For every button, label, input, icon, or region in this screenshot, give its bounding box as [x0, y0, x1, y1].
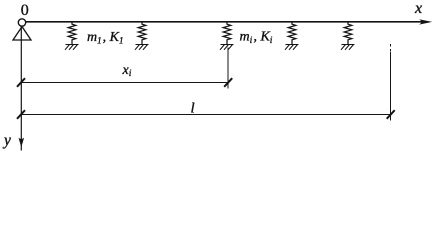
extension line at xi [227, 48, 229, 89]
beam / x-axis line [26, 21, 426, 23]
spring S2 [138, 22, 146, 45]
svg-text:0: 0 [21, 2, 29, 19]
x-axis arrowhead [419, 19, 432, 24]
spring S1 [68, 22, 76, 45]
y-axis arrowhead [19, 138, 25, 148]
extension line at l (dashed top) [390, 44, 392, 52]
tick xi left [17, 78, 25, 87]
y-axis line [20, 27, 22, 151]
pin support circle [18, 19, 25, 26]
tick l right [387, 110, 395, 119]
svg-text:xi: xi [122, 63, 132, 79]
svg-text:mi, Ki: mi, Ki [240, 30, 273, 47]
svg-text:m1, K1: m1, K1 [87, 30, 123, 46]
tick l left [17, 110, 25, 119]
spring S5 [344, 22, 352, 45]
ground Gi [220, 45, 234, 50]
spring S4 [288, 22, 296, 45]
dimension line xi [21, 82, 228, 84]
ground G2 [135, 45, 149, 50]
svg-text:x: x [414, 0, 422, 17]
spring Si [223, 22, 231, 45]
tick xi right [224, 78, 232, 87]
svg-text:l: l [191, 101, 195, 117]
ground G5 [341, 45, 355, 50]
dimension line l [21, 114, 391, 116]
ground G4 [285, 45, 299, 50]
pin support triangle [13, 27, 31, 40]
svg-text:y: y [2, 132, 11, 149]
ground G1 [65, 45, 79, 50]
